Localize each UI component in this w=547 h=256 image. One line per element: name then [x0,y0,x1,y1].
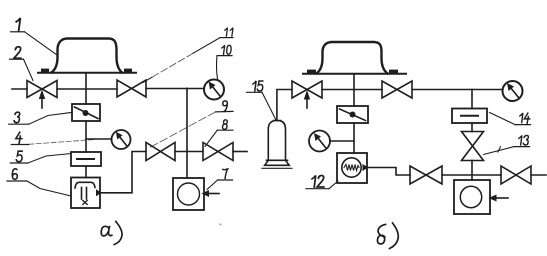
label 6 [7,169,71,196]
tank 1 right foot [124,69,132,73]
regulator box (b) [337,106,368,123]
wire: filter 12 to mid valve (b) [367,168,410,176]
wire: outlet valve (b) to gauge at right [412,89,502,91]
regulator 3 (pressure regulator box) [72,104,100,121]
valve 11 (shutoff valve, bowtie) [117,80,146,97]
label 9 [148,101,233,149]
filter 5 [71,152,101,166]
wire: regulator (b) down to filter 12 [353,123,355,153]
valve 13 (vertical bowtie) [462,132,484,161]
mid valve (b) bowtie [410,166,442,184]
arrow wire into device 7 [202,190,220,197]
wire: outlet after valve 8 [233,151,247,153]
label 8 [205,120,233,147]
gauge (b top right) [503,81,523,101]
wire: valve 2 to valve 11 [57,88,117,90]
wire: dome (b) down through pipe to regulator [353,75,355,107]
wire: outlet after right valve (b) [531,174,546,176]
label 15 [247,81,277,120]
valve 9 (bowtie) [146,143,175,161]
wire: meter 6 to valve 9 [100,152,146,193]
wire: cylinder 15 to inlet valve (b) [277,90,292,121]
wire: node A to gauge 10 [187,88,204,90]
gauge 10 (pressure gauge) [204,80,224,100]
inlet valve (b) bowtie [292,81,322,98]
tank 1 left foot [41,69,49,73]
wire: regulator 3 to filter 5 [85,121,87,152]
wire: stub to gauge (b left) [331,140,354,142]
tank right foot (b) [389,70,398,74]
tank left foot (b) [307,70,316,74]
wire: valve 13 down into device 7b [471,161,473,181]
tank 1 base line [38,72,136,74]
wire: dome down to pipe and regulator 3 [85,74,87,105]
label a) [101,222,122,245]
label 4 [11,132,95,144]
wire: heater 14 to valve 13 [471,123,473,132]
wire: stub to gauge 4 [86,138,112,140]
right valve (b) bowtie [501,166,531,184]
wire: inlet pipe (a) [12,88,27,90]
device 7 (meter with round dial) [173,178,204,210]
wire: valve 9 to valve 8 [175,151,203,153]
stray speck [220,223,222,225]
arrow wire into device 7b [489,195,509,202]
heater 14 [452,109,487,124]
label 2 [10,47,34,81]
label 14 [490,113,531,125]
device 7b (meter with round dial) [454,180,490,214]
valve 2 (shutoff valve, bowtie) [27,81,57,98]
label 3 [9,112,71,124]
wire: node A vertical main line [186,89,188,179]
tank dome shell (b) [317,42,388,74]
gauge 4 (pressure gauge) [112,130,131,149]
label 1 [11,18,57,55]
label 11 [143,28,233,83]
tank 1 dome shell [52,39,123,73]
label 10 [217,45,232,79]
label 12 [306,176,338,189]
gauge (b left) [309,131,330,152]
wire: right column vertical (b) [471,90,473,109]
label 13 [484,136,530,155]
filter-meter 12 [337,153,369,183]
wire: filter 5 to meter 6 [85,166,87,178]
label 5 [10,151,71,163]
label b) [377,223,398,249]
outlet valve (b) bowtie [382,81,412,98]
wire: inlet valve to outlet valve (b) [322,89,382,91]
arrow under valve 2 (flow direction) [39,90,45,109]
tank base line (b) [303,73,406,75]
valve 8 (bowtie) [203,143,233,161]
wire: mid valve to right valve (b) [442,174,501,176]
wire: valve 11 to node A [146,88,187,90]
label 7 [207,169,233,190]
cylinder 15 (gas bottle) [262,121,292,169]
arrow under inlet valve (b) [304,90,310,108]
meter 6 (gas meter box) [71,178,102,209]
